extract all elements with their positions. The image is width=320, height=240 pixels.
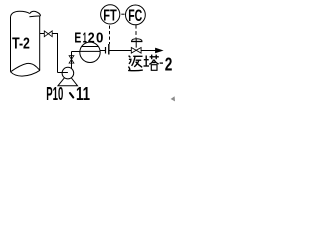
svg-text:P10: P10 (46, 84, 63, 104)
svg-text:0: 0 (96, 30, 103, 47)
svg-text:FT: FT (103, 7, 117, 24)
svg-text:1: 1 (83, 30, 87, 47)
svg-text:E: E (74, 30, 81, 47)
svg-text:2: 2 (88, 30, 95, 47)
svg-text:2: 2 (165, 54, 173, 74)
svg-text:11: 11 (76, 84, 90, 104)
svg-text:FC: FC (128, 7, 142, 25)
svg-text:T-2: T-2 (12, 36, 30, 53)
